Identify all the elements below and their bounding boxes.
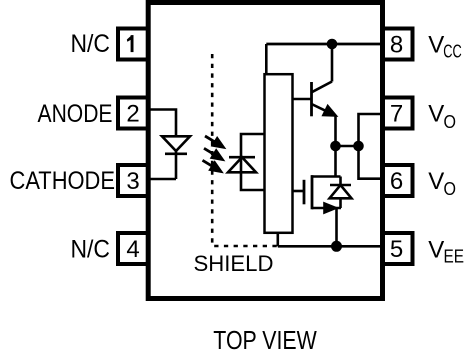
light emission arrow 3 (203, 160, 222, 171)
svg-text:V: V (428, 236, 444, 263)
body diode D3 anode stub (339, 198, 342, 208)
LED D1 (input emitter diode) (162, 136, 190, 154)
svg-text:ANODE: ANODE (38, 100, 113, 128)
label VEE pin 5 (428, 236, 464, 266)
photodiode bracket wires (241, 134, 264, 190)
wire Q1 emitter to output node (334, 116, 337, 147)
wire LED cathode to pin 3 (150, 151, 176, 179)
pin 2 box (118, 98, 148, 129)
svg-text:5: 5 (390, 236, 403, 263)
svg-text:2: 2 (126, 100, 139, 127)
pin 5 box (383, 233, 413, 264)
svg-text:V: V (428, 101, 444, 128)
node VCC junction dot (327, 39, 338, 50)
svg-text:V: V (428, 168, 444, 195)
MOSFET Q2 drain top wire (311, 175, 341, 178)
pin 1 number (127, 35, 134, 52)
svg-text:TOP VIEW: TOP VIEW (213, 327, 316, 354)
transistor Q1 emitter with arrow (312, 104, 336, 116)
svg-text:4: 4 (126, 236, 139, 263)
op-amp / amplifier block U1 (265, 74, 293, 233)
VCC rail wire to pin 8 (266, 43, 381, 46)
wire node to pin 7 (359, 114, 382, 146)
MOSFET Q2 gate wire from amp (294, 190, 305, 193)
label VCC pin 8 (428, 32, 462, 62)
shield dashed boundary (212, 54, 277, 246)
body diode D3 cathode stub (339, 177, 342, 186)
transistor Q1 base wire from amp (294, 98, 312, 101)
node A junction dot (330, 141, 341, 152)
transistor Q1 base bar (310, 82, 313, 116)
svg-text:N/C: N/C (71, 30, 111, 58)
wire amp bottom to VEE rail (276, 233, 279, 246)
pin 6 box (383, 165, 413, 196)
wire amp top to VCC rail (265, 44, 268, 74)
light emission arrow 2 (204, 148, 223, 159)
node VEE junction dot (331, 241, 342, 252)
svg-text:CC: CC (443, 42, 462, 62)
svg-text:3: 3 (126, 168, 139, 195)
wire node to MOSFET drain (334, 146, 337, 177)
label VO pin 6 (428, 168, 456, 199)
svg-text:7: 7 (390, 100, 403, 127)
light emission arrow 1 (205, 136, 224, 147)
svg-text:N/C: N/C (71, 235, 111, 263)
body diode D3 (330, 185, 352, 198)
svg-text:EE: EE (444, 247, 465, 267)
pin 1 box (118, 29, 148, 60)
label VO pin 7 (428, 101, 456, 132)
output node wire (336, 145, 359, 148)
pin 4 box (118, 233, 148, 264)
wire source to VEE rail (335, 208, 338, 246)
svg-text:O: O (444, 112, 457, 132)
MOSFET Q2 channel bar (311, 175, 314, 209)
IC package body (DIP-8 outline) (148, 3, 382, 299)
svg-text:SHIELD: SHIELD (194, 251, 274, 276)
VEE rail wire to pin 5 (278, 245, 381, 248)
MOSFET Q2 gate bar (303, 180, 306, 205)
wire pin 2 to LED anode (150, 110, 176, 137)
MOSFET Q2 source wire with arrow (312, 204, 341, 213)
svg-text:V: V (428, 32, 444, 59)
wire node to pin 6 (359, 146, 382, 179)
svg-text:8: 8 (390, 31, 403, 58)
svg-text:O: O (444, 179, 457, 199)
pin 7 box (383, 98, 413, 129)
transistor Q1 collector wire (312, 44, 333, 92)
pin 8 box (383, 29, 413, 60)
svg-text:CATHODE: CATHODE (10, 167, 116, 195)
photodiode D2 (228, 157, 256, 172)
svg-text:6: 6 (390, 168, 403, 195)
pin 3 box (118, 165, 148, 196)
node B junction dot (353, 141, 364, 152)
